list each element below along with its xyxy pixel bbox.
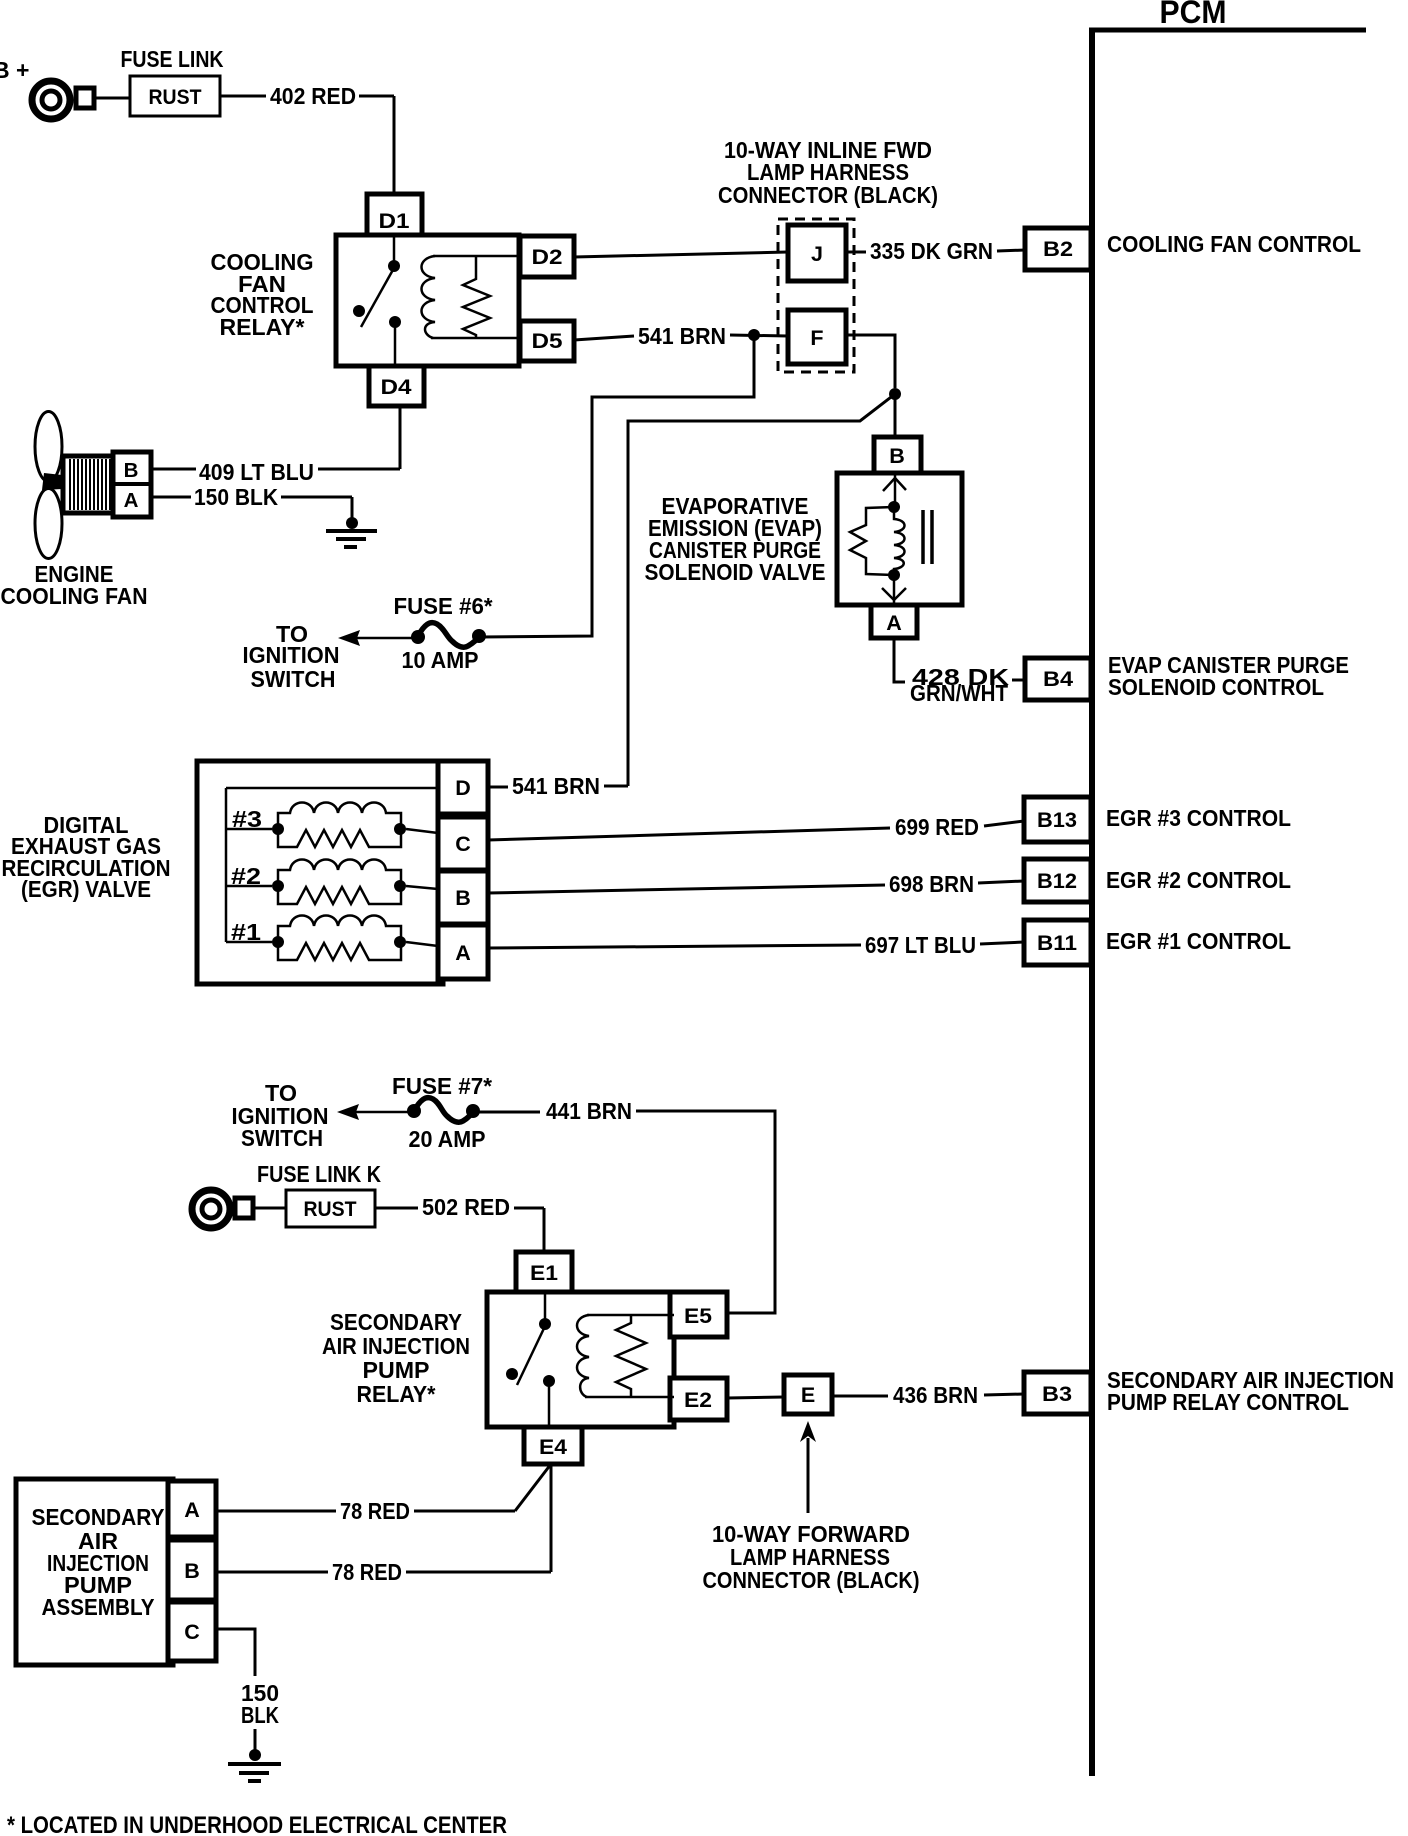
svg-text:RELAY*: RELAY* — [220, 314, 305, 340]
svg-text:SWITCH: SWITCH — [241, 1125, 323, 1151]
svg-text:697 LT BLU: 697 LT BLU — [865, 932, 976, 958]
svg-text:541 BRN: 541 BRN — [638, 323, 726, 349]
svg-text:D: D — [455, 776, 471, 800]
svg-text:SOLENOID VALVE: SOLENOID VALVE — [645, 559, 826, 585]
svg-text:150 BLK: 150 BLK — [194, 484, 278, 510]
svg-text:PUMP RELAY CONTROL: PUMP RELAY CONTROL — [1107, 1389, 1349, 1415]
svg-text:541 BRN: 541 BRN — [512, 773, 600, 799]
svg-text:FUSE #7*: FUSE #7* — [392, 1073, 492, 1099]
svg-text:FUSE LINK K: FUSE LINK K — [257, 1161, 381, 1187]
svg-text:335 DK GRN: 335 DK GRN — [870, 238, 993, 264]
svg-text:F: F — [810, 326, 823, 350]
svg-text:78 RED: 78 RED — [332, 1559, 402, 1585]
svg-text:BLK: BLK — [241, 1702, 279, 1728]
svg-text:B: B — [455, 886, 471, 910]
svg-text:FUSE LINK: FUSE LINK — [121, 46, 224, 72]
svg-text:699 RED: 699 RED — [895, 814, 979, 840]
svg-text:436 BRN: 436 BRN — [893, 1382, 978, 1408]
svg-text:E5: E5 — [684, 1304, 712, 1328]
svg-text:78 RED: 78 RED — [340, 1498, 410, 1524]
svg-text:COOLING FAN: COOLING FAN — [1, 583, 148, 609]
svg-text:B11: B11 — [1037, 931, 1077, 955]
svg-text:D2: D2 — [532, 245, 563, 269]
svg-text:409 LT BLU: 409 LT BLU — [199, 459, 314, 485]
svg-text:PUMP: PUMP — [363, 1357, 430, 1383]
svg-text:ASSEMBLY: ASSEMBLY — [42, 1594, 155, 1620]
svg-text:EGR #3 CONTROL: EGR #3 CONTROL — [1106, 805, 1291, 831]
svg-text:SWITCH: SWITCH — [251, 666, 336, 692]
svg-text:10 AMP: 10 AMP — [402, 647, 479, 673]
svg-text:RELAY*: RELAY* — [357, 1381, 436, 1407]
svg-text:IGNITION: IGNITION — [243, 642, 340, 668]
svg-text:B3: B3 — [1042, 1382, 1072, 1406]
svg-text:D5: D5 — [532, 329, 563, 353]
svg-text:GRN/WHT: GRN/WHT — [910, 680, 1008, 706]
svg-text:B: B — [124, 459, 139, 482]
svg-text:402 RED: 402 RED — [270, 83, 356, 109]
svg-text:B: B — [889, 444, 905, 468]
svg-text:PCM: PCM — [1160, 0, 1227, 30]
svg-text:502 RED: 502 RED — [422, 1194, 510, 1220]
svg-text:D1: D1 — [379, 209, 410, 233]
svg-text:SECONDARY: SECONDARY — [330, 1309, 462, 1335]
svg-text:(EGR) VALVE: (EGR) VALVE — [21, 876, 151, 902]
svg-text:441 BRN: 441 BRN — [546, 1098, 632, 1124]
svg-text:SECONDARY: SECONDARY — [32, 1504, 165, 1530]
svg-text:B +: B + — [0, 57, 29, 83]
svg-text:E1: E1 — [530, 1261, 558, 1285]
svg-text:CONNECTOR (BLACK): CONNECTOR (BLACK) — [718, 182, 938, 208]
svg-text:E: E — [801, 1383, 815, 1407]
svg-text:SOLENOID CONTROL: SOLENOID CONTROL — [1108, 674, 1324, 700]
svg-text:B12: B12 — [1037, 869, 1077, 893]
svg-text:B13: B13 — [1037, 808, 1077, 832]
svg-text:D4: D4 — [381, 375, 412, 399]
svg-text:C: C — [184, 1620, 200, 1644]
svg-text:B: B — [184, 1559, 200, 1583]
svg-text:RUST: RUST — [304, 1197, 357, 1221]
svg-text:CONNECTOR (BLACK): CONNECTOR (BLACK) — [703, 1567, 920, 1593]
svg-text:A: A — [184, 1498, 200, 1522]
svg-text:COOLING FAN CONTROL: COOLING FAN CONTROL — [1107, 231, 1361, 257]
svg-text:* LOCATED IN UNDERHOOD ELECTRI: * LOCATED IN UNDERHOOD ELECTRICAL CENTER — [7, 1812, 507, 1836]
svg-text:AIR INJECTION: AIR INJECTION — [322, 1333, 470, 1359]
svg-text:C: C — [455, 832, 471, 856]
svg-text:FUSE #6*: FUSE #6* — [394, 593, 493, 619]
svg-text:A: A — [124, 489, 139, 512]
svg-text:A: A — [455, 941, 471, 965]
svg-text:J: J — [811, 242, 823, 266]
svg-text:E4: E4 — [539, 1435, 567, 1459]
svg-text:B2: B2 — [1043, 237, 1073, 261]
svg-text:698 BRN: 698 BRN — [889, 871, 974, 897]
svg-text:20 AMP: 20 AMP — [409, 1126, 486, 1152]
svg-text:E2: E2 — [684, 1388, 712, 1412]
svg-text:RUST: RUST — [149, 85, 202, 109]
svg-text:EGR #1 CONTROL: EGR #1 CONTROL — [1106, 928, 1291, 954]
svg-text:A: A — [886, 611, 902, 635]
svg-text:EGR #2 CONTROL: EGR #2 CONTROL — [1106, 867, 1291, 893]
svg-text:B4: B4 — [1043, 667, 1073, 691]
